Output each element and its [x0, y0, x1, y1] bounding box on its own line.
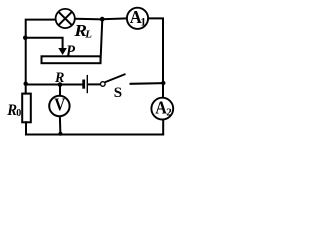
wire: voltmeter top lead — [59, 85, 61, 95]
voltmeter V — [49, 94, 69, 116]
label RL — [73, 21, 92, 41]
junction: bottom rail / voltmeter — [58, 132, 62, 136]
wire: top-left corner, left rail upper segment — [26, 20, 55, 38]
junction: top wire / rheostat riser — [100, 17, 105, 22]
wire: battery branch from left rail to battery — [26, 84, 84, 86]
junction: left rail / battery branch — [24, 82, 28, 86]
svg-text:V: V — [54, 94, 65, 114]
ammeter A1 — [127, 7, 148, 29]
wire: bottom rail from voltmeter junction to bottom-left corner up to R0 — [26, 122, 61, 134]
svg-text:2: 2 — [166, 107, 172, 119]
svg-text:L: L — [84, 28, 92, 40]
switch S pivot — [101, 82, 106, 87]
junction: left rail / wiper feed — [23, 36, 28, 41]
wire: riser from top junction down to rheostat right terminal — [101, 19, 103, 62]
junction: right rail / switch branch — [161, 81, 165, 85]
svg-text:P: P — [65, 43, 75, 60]
svg-text:1: 1 — [140, 16, 146, 28]
wire: left rail between rheostat junction and battery junction — [25, 38, 27, 84]
resistor R0 (box) — [22, 94, 31, 123]
svg-text:S: S — [114, 85, 122, 101]
battery cell: long thin plate — [86, 75, 88, 93]
switch S lever — [105, 74, 126, 82]
wire: switch to right rail — [131, 82, 164, 85]
wire: right rail, switch junction down to A2 — [162, 83, 164, 97]
label R0 — [6, 102, 21, 119]
wire: left rail battery junction down to R0 top — [25, 84, 27, 94]
label S — [114, 85, 122, 101]
battery cell: short thick plate — [82, 80, 85, 89]
ammeter A2 — [151, 97, 173, 119]
wire: lamp to top junction — [76, 18, 102, 21]
label P — [65, 43, 75, 60]
lamp RL — [56, 9, 75, 28]
wire: voltmeter bottom lead — [59, 117, 62, 134]
junction: battery branch / voltmeter — [58, 82, 63, 87]
wire: rheostat wiper feed from left rail — [26, 38, 63, 48]
wire: A1 to top-right corner and right rail down to switch junction — [149, 18, 163, 83]
wire: battery to switch pivot — [88, 83, 99, 85]
rheostat wiper arrow P — [59, 46, 66, 54]
svg-text:A: A — [155, 97, 167, 117]
wire: top junction to ammeter A1 — [102, 17, 126, 20]
rheostat R (box) — [42, 56, 101, 63]
label R (rheostat) — [54, 70, 64, 86]
wire: A2 bottom to bottom-right corner, bottom rail to voltmeter junction — [61, 120, 164, 134]
svg-text:0: 0 — [16, 108, 21, 119]
